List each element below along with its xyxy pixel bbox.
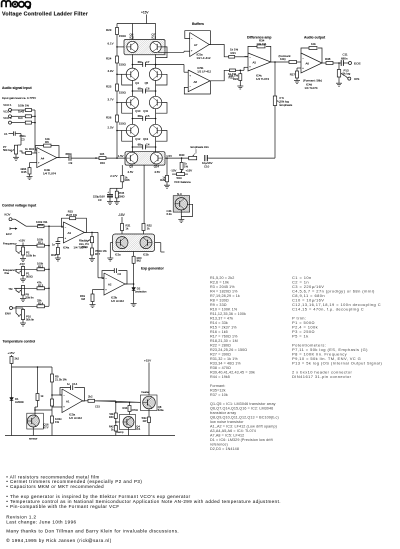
resistor R16	[99, 157, 106, 160]
wire right base tie loop	[156, 47, 167, 58]
wire VCO 1	[11, 109, 25, 111]
wire pair to R20	[133, 252, 135, 257]
resistor R34	[181, 158, 183, 162]
svg-text:+15V: +15V	[8, 351, 15, 355]
svg-text:50k lin: 50k lin	[26, 296, 35, 300]
capacitor C11	[340, 60, 342, 66]
svg-text:+15V: +15V	[144, 359, 151, 363]
wire A7 feedback	[185, 31, 211, 45]
ground P10	[22, 320, 24, 324]
transistor Q8 heater	[143, 396, 156, 409]
svg-text:R21: R21	[231, 51, 237, 55]
svg-text:Temperature control: Temperature control	[3, 340, 36, 344]
ground exp output	[131, 303, 137, 305]
resistor R38	[326, 62, 333, 65]
svg-text:1.5V: 1.5V	[166, 154, 172, 158]
svg-text:50k log: 50k log	[3, 148, 12, 152]
wire A2 inv from bus	[98, 277, 104, 279]
svg-text:150Ω: 150Ω	[119, 91, 127, 95]
svg-text:Buffers: Buffers	[192, 22, 204, 26]
input VCO 1	[9, 109, 12, 112]
svg-text:4.5V: 4.5V	[154, 170, 160, 174]
svg-text:680n: 680n	[66, 152, 73, 156]
svg-text:1/2 LF412: 1/2 LF412	[111, 299, 124, 303]
svg-text:R29: R29	[160, 178, 165, 182]
wire ladder right column	[155, 55, 157, 69]
svg-text:1M: 1M	[81, 297, 86, 301]
svg-text:C14,15 = 470n, f.µ. decoupling: C14,15 = 470n, f.µ. decoupling C	[292, 306, 364, 311]
svg-text:Audio output: Audio output	[304, 36, 326, 40]
svg-text:Q3: Q3	[129, 165, 133, 169]
wire ladder left column	[131, 55, 133, 69]
resistor PCB GND	[116, 188, 118, 191]
wire clamp base	[116, 421, 123, 423]
svg-text:100k 1%: 100k 1%	[18, 103, 29, 107]
ground Q1a base	[107, 257, 113, 259]
svg-text:1n: 1n	[67, 382, 71, 386]
svg-text:D2,D3 = 1N4148: D2,D3 = 1N4148	[210, 447, 239, 451]
wire sensor top	[34, 407, 36, 415]
clamp bias chain	[115, 402, 117, 404]
wire R14 bus	[45, 305, 50, 307]
wire emphasis drop	[274, 62, 276, 96]
wire P1 wiper	[16, 269, 37, 273]
diode D1 LM329	[10, 398, 14, 401]
resistor R36 feedback	[318, 48, 322, 63]
svg-text:C4: C4	[146, 142, 150, 146]
capacitor C9	[68, 155, 70, 161]
output IOS	[348, 77, 351, 80]
svg-text:A7: A7	[194, 43, 198, 47]
resistor R41	[51, 395, 53, 399]
resistor R21	[229, 56, 235, 59]
svg-text:R11,12,35,36 = 100k: R11,12,35,36 = 100k	[210, 312, 246, 316]
resistor R10	[38, 225, 45, 228]
input VCO 2	[9, 115, 12, 118]
svg-text:Formant:: Formant:	[210, 384, 226, 388]
svg-text:500Ω: 500Ω	[26, 275, 33, 279]
svg-text:250Ω: 250Ω	[81, 245, 88, 249]
wire A1 ref resistor	[51, 410, 53, 416]
wire R2 to bus	[32, 115, 36, 117]
wire to heater base	[95, 401, 141, 403]
svg-text:R30: R30	[179, 153, 185, 157]
svg-text:VCO 2: VCO 2	[3, 110, 12, 114]
svg-text:10k 1%: 10k 1%	[257, 42, 267, 46]
svg-text:Many thanks to Don Tillman and: Many thanks to Don Tillman and Barry Kle…	[6, 529, 179, 534]
wire sensor gnd	[32, 427, 34, 436]
transistor Q7	[150, 41, 161, 52]
matched pair box Q2 Q3 input	[125, 152, 165, 165]
svg-text:680n: 680n	[341, 56, 348, 60]
wire input pair emitters	[143, 165, 145, 223]
capacitor C14 temp	[75, 388, 85, 401]
wire R43 gnd	[148, 423, 150, 436]
op-amp A1	[62, 389, 83, 413]
resistor R42 out	[88, 399, 95, 402]
base bias resistor R29b	[166, 158, 168, 175]
svg-text:270Ω: 270Ω	[132, 408, 138, 412]
svg-text:R40: R40	[109, 415, 114, 419]
ground R45	[29, 174, 31, 177]
svg-text:1k0: 1k0	[18, 116, 23, 120]
op-amp A5	[248, 53, 271, 71]
svg-text:C14: C14	[72, 382, 78, 386]
wire left base tie loop	[122, 103, 133, 114]
capacitor C5	[132, 118, 142, 120]
wire A2 output to ladder	[125, 283, 134, 285]
matched pair box Q1 current source	[113, 234, 155, 252]
svg-text:A2: A2	[108, 282, 112, 286]
svg-text:P13 = 5k log (OS (Internal Out: P13 = 5k log (OS (Internal Output Signal…	[292, 360, 383, 365]
svg-text:R24: R24	[233, 77, 239, 81]
svg-text:+15V: +15V	[186, 169, 193, 173]
svg-text:EOS: EOS	[354, 61, 361, 65]
svg-text:R25: R25	[106, 85, 112, 89]
input ENV	[10, 307, 13, 310]
svg-text:10k: 10k	[311, 42, 316, 46]
svg-text:2W: 2W	[143, 419, 147, 423]
wire ladder to A7 input	[158, 51, 184, 53]
wire A4 output	[57, 157, 69, 159]
pot P13	[337, 70, 340, 78]
svg-text:C5: C5	[146, 114, 150, 118]
svg-text:1%: 1%	[55, 420, 59, 424]
ground R27	[296, 78, 298, 81]
svg-text:sensor: sensor	[29, 436, 37, 440]
svg-text:R39,40,41,42,43,45 = 39k: R39,40,41,42,43,45 = 39k	[210, 370, 255, 374]
svg-text:R23: R23	[106, 28, 112, 32]
svg-text:C15: C15	[95, 405, 100, 409]
resistor R44 270	[129, 402, 131, 404]
wire spare loop	[181, 204, 192, 216]
resistor R40	[36, 394, 39, 401]
svg-text:68n: 68n	[138, 86, 143, 90]
svg-text:1/4 TL074: 1/4 TL074	[256, 77, 269, 81]
svg-text:2.17V: 2.17V	[110, 174, 117, 178]
wire right base tie loop	[156, 103, 167, 114]
capacitor C2 cv	[56, 241, 61, 243]
svg-text:+15V: +15V	[141, 11, 149, 15]
svg-text:Q11: Q11	[143, 109, 148, 113]
svg-text:2k2: 2k2	[15, 357, 20, 361]
svg-text:Input gain level ca. 0.775V: Input gain level ca. 0.775V	[2, 96, 36, 100]
wire ladder to P8	[165, 157, 189, 159]
svg-text:C3: C3	[21, 137, 25, 141]
svg-text:IC2: IC2	[152, 36, 157, 40]
op-amp A8	[188, 70, 210, 92]
heater transistor box	[141, 395, 158, 411]
svg-text:Q14: Q14	[154, 165, 160, 169]
svg-text:2k2: 2k2	[88, 395, 93, 399]
wire R32 to pair	[143, 231, 145, 235]
svg-text:Emphasis trim: Emphasis trim	[191, 145, 210, 149]
wire C10 right	[207, 157, 209, 159]
svg-text:-15V: -15V	[171, 169, 177, 173]
svg-text:R13: R13	[38, 283, 44, 287]
svg-text:• Capacitors MKM or MKT recomm: • Capacitors MKM or MKT recommended	[6, 484, 104, 489]
resistor R33 feedback	[245, 56, 249, 58]
spare transistor box	[173, 196, 190, 212]
svg-text:150Ω: 150Ω	[119, 122, 127, 126]
svg-text:R31,32 = 1k 1%: R31,32 = 1k 1%	[210, 357, 238, 361]
svg-text:68n: 68n	[138, 142, 143, 146]
wire A2 plus	[93, 289, 105, 291]
svg-text:heater: heater	[142, 390, 150, 394]
wire P2 wiper	[16, 246, 37, 254]
pot P7 input level	[14, 145, 17, 154]
ground P2	[22, 255, 24, 259]
resistor R14	[37, 305, 45, 308]
wire R9 branch	[51, 367, 53, 374]
transistor Q10	[126, 96, 138, 108]
svg-text:A7,A8 = IC5: LF412: A7,A8 = IC5: LF412	[210, 433, 244, 437]
wire rail drops	[116, 24, 118, 28]
moog logo	[2, 1, 31, 9]
resistor R24	[116, 56, 119, 63]
wire ENV to P10	[13, 307, 24, 309]
transistor Q16 sensor	[27, 415, 39, 427]
wire R22 to A5	[236, 69, 245, 71]
pot P6 emphasis	[273, 96, 276, 106]
wire input bus	[34, 110, 36, 153]
svg-text:A3,A4,A5,A6 = IC4: TL074: A3,A4,A5,A6 = IC4: TL074	[210, 429, 256, 433]
wire R21 to A5	[235, 56, 248, 58]
resistor R20	[132, 256, 135, 263]
svg-text:VCF balance: VCF balance	[174, 180, 191, 184]
op-amp A6	[301, 53, 322, 73]
svg-text:Q6,Q7,Q14,Q15,Q16 = IC2: LM304: Q6,Q7,Q14,Q15,Q16 = IC2: LM3046	[210, 406, 273, 410]
wire D1 branch	[11, 367, 13, 398]
svg-text:transistor array: transistor array	[210, 411, 236, 415]
transistor Q13	[149, 124, 161, 136]
resistor R9 21k5	[51, 374, 54, 382]
ground P7	[15, 154, 17, 157]
svg-text:ENV: ENV	[5, 312, 11, 316]
svg-text:68n: 68n	[138, 114, 143, 118]
resistor R13	[37, 287, 45, 290]
resistor R35	[289, 61, 297, 64]
svg-text:IC1a: IC1a	[115, 253, 121, 257]
svg-text:VCO 1: VCO 1	[3, 103, 12, 107]
resistor R19 1M	[91, 294, 94, 302]
svg-text:Q13: Q13	[143, 137, 149, 141]
svg-text:Audio signal input: Audio signal input	[2, 86, 32, 90]
wire A4 plus	[30, 162, 37, 164]
svg-text:4.9V: 4.9V	[108, 69, 114, 73]
transistor Q2	[126, 152, 138, 164]
svg-text:R16: R16	[100, 161, 105, 165]
resistor R12	[37, 268, 45, 271]
op-amp A2	[104, 273, 125, 295]
svg-text:1k43: 1k43	[18, 110, 25, 114]
transistor Q5	[149, 68, 161, 80]
svg-text:Q5: Q5	[145, 81, 149, 85]
transistor Q12	[126, 124, 138, 136]
svg-text:R2,6 = 10k: R2,6 = 10k	[210, 280, 229, 284]
svg-text:C7: C7	[146, 60, 150, 64]
svg-text:R8 = 330Ω: R8 = 330Ω	[210, 298, 229, 302]
svg-text:Last change: June 10th 1996: Last change: June 10th 1996	[6, 519, 76, 524]
svg-text:R44: R44	[123, 406, 128, 410]
svg-text:R38 = 470Ω: R38 = 470Ω	[210, 366, 231, 370]
wire Q1a base	[110, 242, 112, 244]
capacitor C2 fb	[113, 268, 115, 273]
wire R9 to A1	[51, 382, 53, 395]
resistor R39	[11, 355, 13, 357]
svg-text:4.5V: 4.5V	[128, 170, 134, 174]
svg-text:Q8,Q9,Q10,Q11,Q12,Q13 = BC109(: Q8,Q9,Q10,Q11,Q12,Q13 = BC109(b,c)	[210, 415, 279, 419]
transistor Q6	[127, 41, 138, 52]
wire +15V to rail	[145, 15, 147, 24]
wire R44 to box	[129, 412, 131, 415]
svg-text:R14 = 33k: R14 = 33k	[210, 321, 228, 325]
wire R40 to sensor	[37, 401, 39, 408]
svg-text:A8: A8	[194, 80, 198, 84]
transistor Q1b	[140, 237, 152, 249]
svg-text:VCO 3: VCO 3	[3, 116, 12, 120]
resistor R32	[142, 224, 145, 231]
svg-text:D1 = IC6: LM329 (Precision low: D1 = IC6: LM329 (Precision low drift	[210, 438, 273, 442]
wire to C11	[333, 62, 341, 64]
ground R29b	[166, 182, 168, 185]
wire right base tie loop	[156, 131, 167, 142]
resistor R45 gain	[28, 168, 31, 174]
svg-text:IC1: IC1	[136, 427, 141, 431]
wire A4 feedback	[51, 146, 59, 158]
svg-text:low noise transistor: low noise transistor	[210, 420, 244, 424]
svg-text:Exp generator: Exp generator	[141, 267, 164, 271]
wire +15V heater	[148, 363, 150, 397]
wire R4 to A4	[32, 152, 37, 154]
wire -15V feed	[121, 217, 123, 224]
wire Q1b stub	[161, 251, 165, 253]
wire bias node	[110, 187, 122, 189]
capacitor C10	[204, 155, 206, 161]
wire A7 to R21	[209, 45, 229, 57]
svg-text:R17 = 760Ω 1%: R17 = 760Ω 1%	[210, 334, 238, 338]
svg-text:100k lin: 100k lin	[26, 254, 36, 258]
resistor R18 plus	[57, 244, 59, 248]
wire R13 bus	[45, 287, 50, 289]
wire VCO 3	[11, 122, 25, 124]
wire P6 down to ladder input	[274, 106, 276, 159]
svg-text:R44 = 19k5: R44 = 19k5	[210, 375, 230, 379]
wire heater emitter	[148, 409, 150, 417]
svg-text:ECV: ECV	[6, 232, 12, 236]
capacitor C3 electrolytic	[109, 188, 111, 194]
svg-text:R16 = 1k5: R16 = 1k5	[210, 330, 228, 334]
wire C1 to pot	[20, 134, 22, 145]
wire R11 bus	[45, 245, 50, 247]
svg-text:1/4 TL074: 1/4 TL074	[305, 86, 318, 90]
matched pair box Q6 Q7	[124, 40, 165, 55]
svg-text:C9: C9	[69, 161, 73, 165]
svg-text:Frequency: Frequency	[3, 242, 17, 246]
base bias resistor R26b	[121, 165, 123, 175]
svg-text:R1,5,20 = 2k2: R1,5,20 = 2k2	[210, 276, 234, 280]
wire R1 to bus	[32, 109, 36, 111]
svg-text:R26: R26	[106, 116, 112, 120]
svg-text:C2: C2	[118, 272, 122, 276]
resistor R2	[25, 115, 31, 118]
capacitor C7	[132, 64, 142, 66]
op-amp A4	[37, 148, 57, 168]
svg-text:21.5k 1%: 21.5k 1%	[55, 378, 67, 382]
wire R41 to sensor node	[51, 406, 53, 410]
svg-text:R45: R45	[21, 170, 27, 174]
svg-text:PCB: PCB	[119, 191, 125, 195]
wire R12 bus	[45, 268, 50, 270]
capacitor C6	[132, 90, 142, 92]
wire A8 to R22	[210, 70, 230, 81]
svg-text:KOV: KOV	[5, 212, 11, 216]
svg-text:1n: 1n	[52, 243, 56, 247]
diode D2	[132, 288, 136, 291]
resistor R6 feedback	[44, 144, 51, 147]
ground R17	[91, 255, 93, 259]
svg-text:2.5V: 2.5V	[108, 125, 114, 129]
svg-text:6x3a: 6x3a	[158, 408, 164, 412]
wire KOV	[12, 218, 15, 220]
wire C11 to EOS	[343, 62, 348, 64]
pot P1	[22, 266, 24, 267]
wire right base tie loop	[156, 74, 167, 85]
ground P13	[338, 77, 340, 83]
wire A3 plus	[58, 237, 64, 239]
svg-text:KTY: KTY	[43, 425, 48, 429]
wire A3 output	[84, 231, 98, 233]
svg-text:• Pin-compatible with the Form: • Pin-compatible with the Formant regula…	[6, 504, 119, 509]
ground R24	[239, 81, 241, 87]
svg-text:C3: C3	[98, 198, 102, 202]
capacitor C4	[132, 146, 142, 148]
svg-text:Q12: Q12	[135, 137, 141, 141]
resistor R3	[25, 121, 31, 124]
wire C9 to R16	[71, 157, 99, 159]
svg-text:150Ω: 150Ω	[119, 63, 127, 67]
svg-text:IC4a: IC4a	[63, 246, 69, 250]
svg-text:C10: C10	[204, 164, 210, 168]
svg-text:2k37 1%: 2k37 1%	[66, 213, 77, 217]
transistor Q15	[123, 417, 134, 428]
ground R19	[92, 302, 94, 305]
svg-text:clamp: clamp	[116, 430, 124, 434]
resistor R25	[116, 84, 119, 91]
wire R31 to pair	[121, 231, 123, 235]
svg-text:R14: R14	[38, 301, 44, 305]
svg-text:R23,24,25,26 = 150Ω: R23,24,25,26 = 150Ω	[210, 348, 247, 352]
ground P1	[22, 276, 24, 280]
resistor R43 heater	[148, 417, 151, 423]
wire base tap	[117, 130, 127, 132]
wire P7 wiper	[20, 151, 26, 153]
resistor R1	[25, 109, 31, 112]
wire Q1b base	[155, 242, 161, 244]
svg-text:Q1-Q5 = IC1: LM3046 transistor: Q1-Q5 = IC1: LM3046 transistor array	[210, 402, 276, 406]
svg-text:R15 = 2k37 1%: R15 = 2k37 1%	[210, 325, 237, 329]
svg-text:R24: R24	[106, 57, 112, 61]
wire R16 to ladder	[106, 157, 125, 159]
wire P10 wiper	[16, 306, 37, 316]
svg-text:C1: C1	[4, 132, 8, 136]
wire P13 wiper to IOS	[343, 75, 348, 79]
svg-text:-15V: -15V	[118, 213, 126, 217]
wire base tap	[117, 46, 127, 48]
resistor R17	[91, 243, 93, 248]
svg-text:GND: GND	[119, 195, 125, 199]
resistor R26	[116, 115, 119, 122]
